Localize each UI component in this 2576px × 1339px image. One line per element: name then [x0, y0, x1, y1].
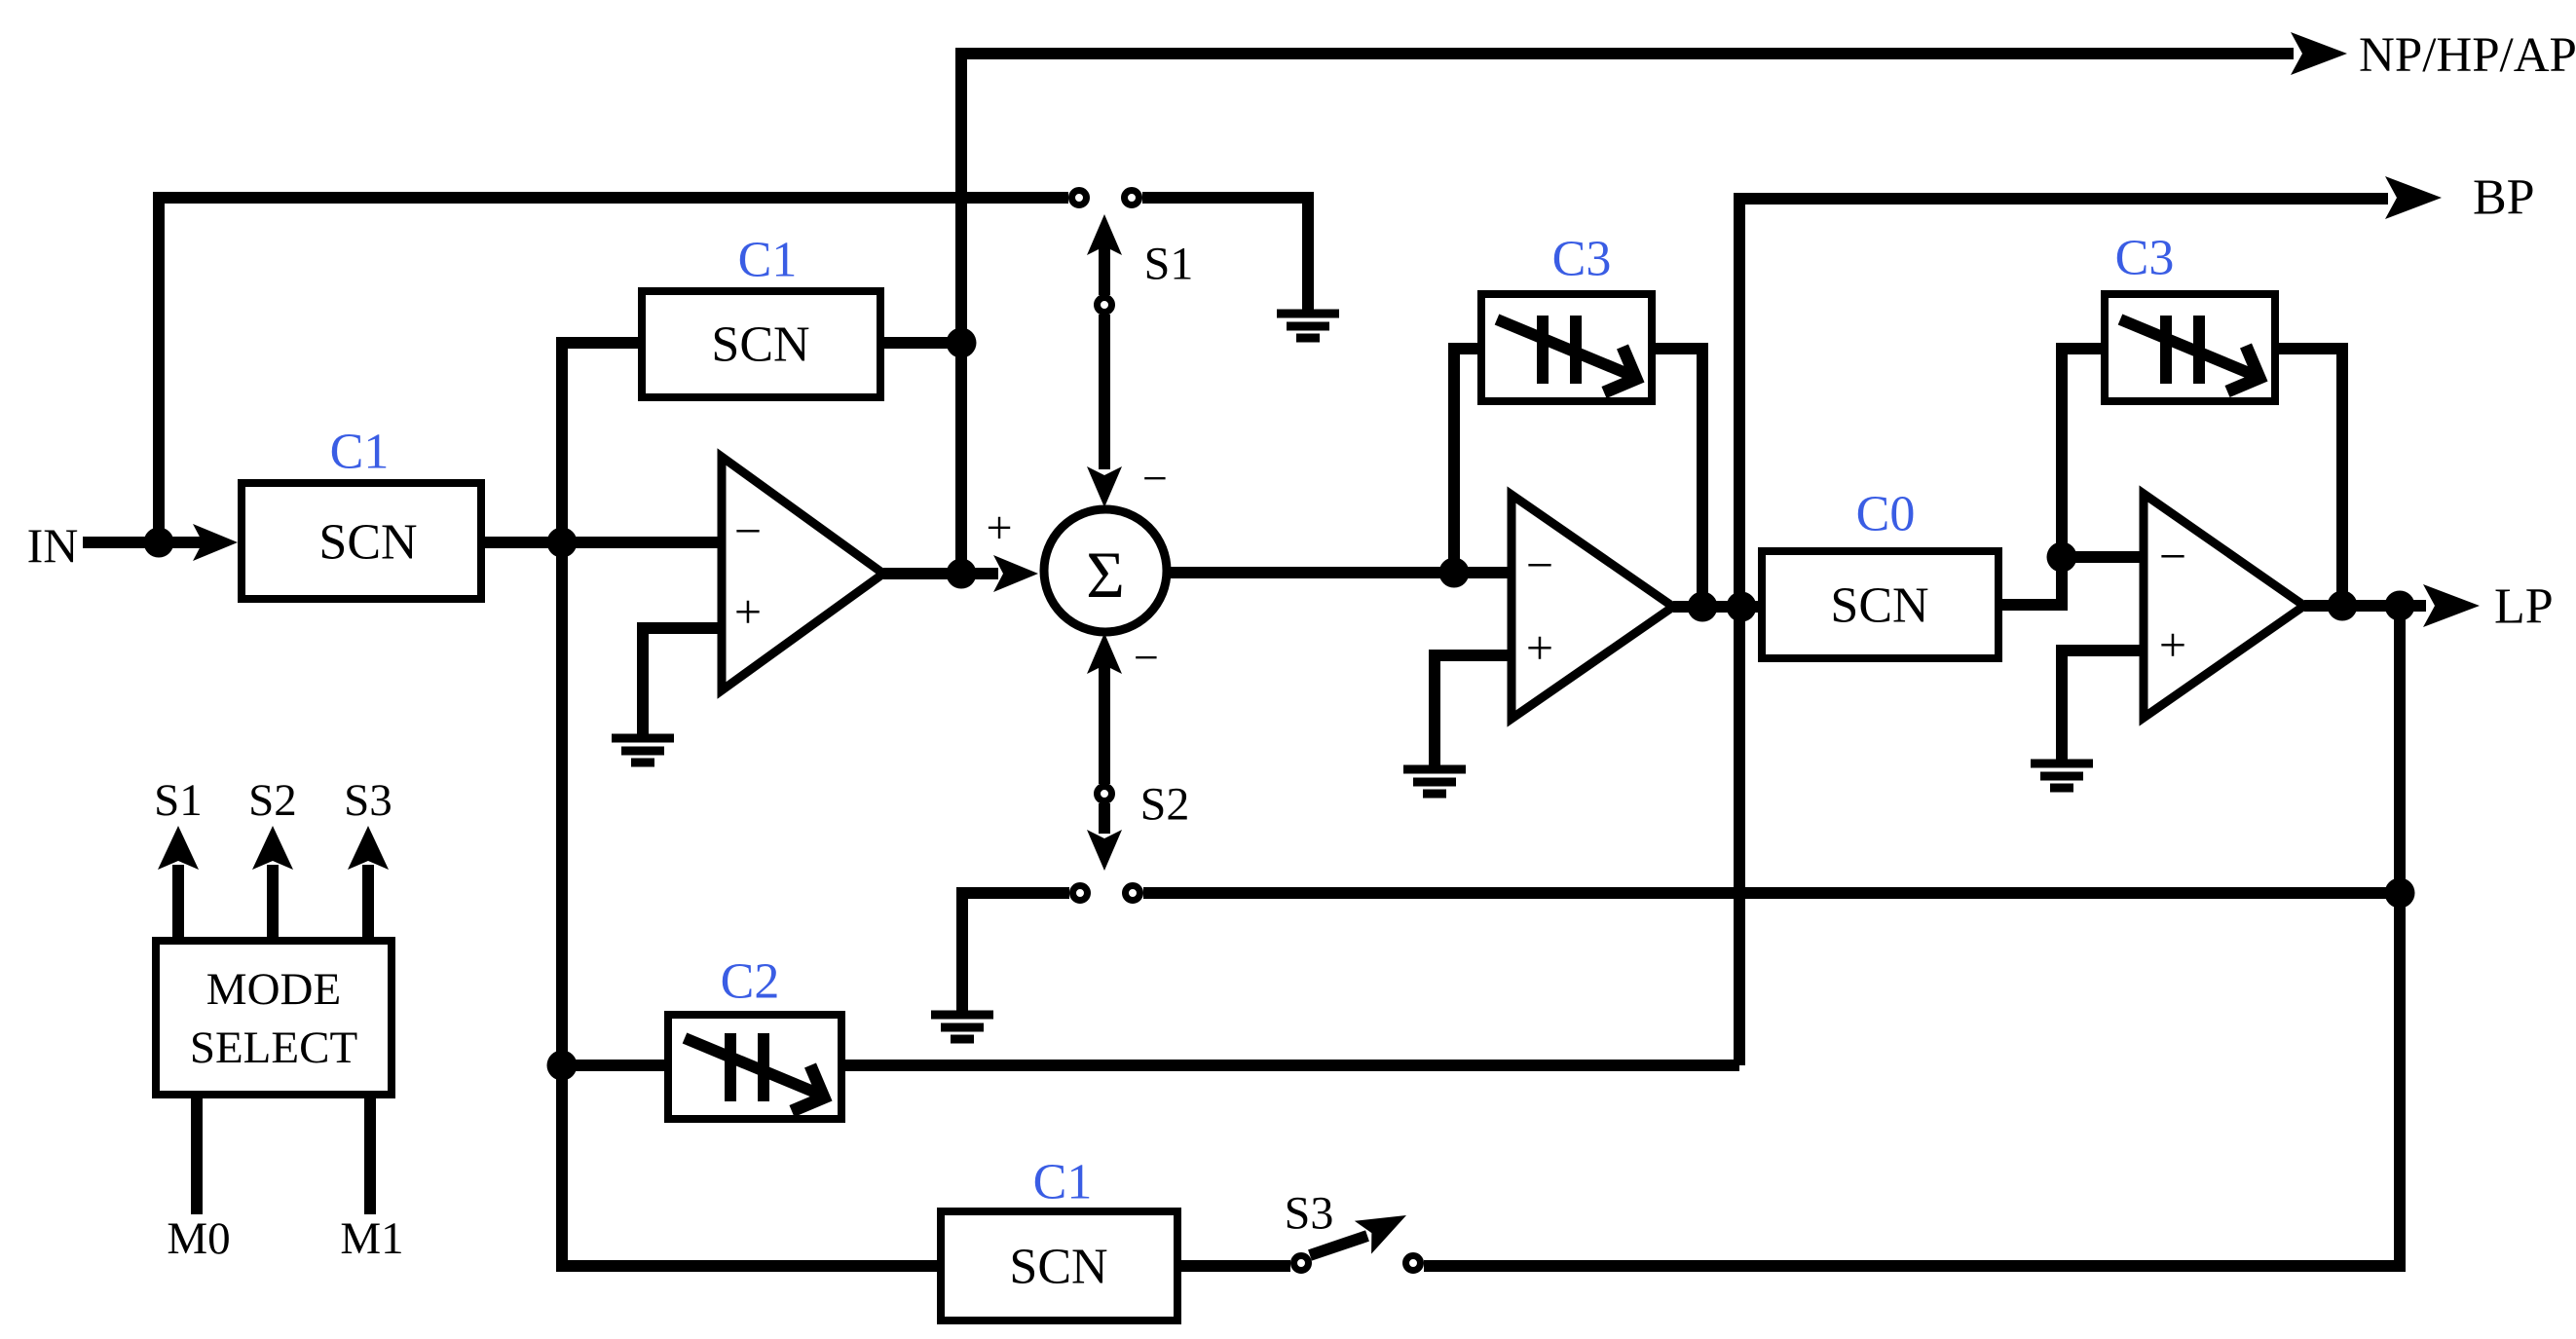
svg-text:IN: IN — [27, 518, 79, 573]
wire NP/HP/AP riser and top line — [961, 54, 2294, 574]
capacitor C3 box (second) — [2105, 294, 2275, 401]
wire U2 + input to ground — [1435, 655, 1512, 765]
wire IN riser to S1 row — [159, 198, 1068, 542]
svg-text:MODE: MODE — [206, 964, 341, 1015]
switch S3 arm — [1310, 1236, 1367, 1255]
block SCN C1 feedback top — [642, 291, 880, 397]
svg-text:+: + — [734, 584, 762, 639]
wire BP riser (C2 return up to BP line) — [1739, 199, 2388, 1065]
block SCN C1 bottom — [941, 1211, 1177, 1320]
svg-text:C2: C2 — [721, 954, 780, 1010]
svg-text:SCN: SCN — [318, 515, 417, 571]
arrowhead mode S2 — [252, 826, 293, 870]
svg-text:+: + — [986, 502, 1012, 554]
svg-text:M1: M1 — [340, 1213, 403, 1264]
wire M0 input — [191, 1098, 203, 1214]
arrowhead mode S1 — [158, 826, 199, 870]
wire S2 left contact to ground — [962, 893, 1069, 1011]
svg-text:Σ: Σ — [1086, 538, 1125, 612]
switch S2 right contact — [1126, 886, 1140, 901]
svg-text:−: − — [2159, 529, 2186, 583]
switch S2 left contact — [1073, 886, 1088, 901]
svg-text:M0: M0 — [167, 1213, 230, 1264]
block SCN C1 input — [242, 483, 481, 599]
svg-text:SCN: SCN — [1009, 1240, 1107, 1295]
wire S2 arrow upper stem — [1099, 664, 1110, 784]
arrowhead S2 (down) — [1087, 830, 1122, 871]
junction dot U2 out / BP riser — [1727, 592, 1757, 622]
switch S3 right contact — [1406, 1256, 1421, 1271]
svg-text:S1: S1 — [1144, 239, 1194, 290]
ground (U2 +) — [1403, 769, 1466, 794]
capacitor C3 symbol (second) — [2166, 316, 2199, 384]
junction dot U2 out / C3 right — [1688, 592, 1718, 622]
op-amp U1 — [722, 457, 883, 690]
wire C3 first left feedback — [1454, 349, 1481, 573]
junction dot U3 minus node — [2047, 542, 2077, 573]
svg-text:+: + — [1526, 620, 1553, 675]
switch S1 control arrow (up head) — [1087, 214, 1122, 255]
wire mode S3 stem — [362, 865, 374, 937]
svg-text:C3: C3 — [2115, 231, 2175, 286]
wire SCN top output to NP riser — [880, 337, 961, 349]
arrowhead LP output — [2423, 584, 2480, 627]
capacitor C2 symbol — [730, 1033, 764, 1101]
arrowhead S1 into summer (down) — [1087, 466, 1122, 507]
arrowhead S3 arm — [1355, 1199, 1415, 1254]
arrowhead mode S3 — [348, 826, 389, 870]
summer sigma circle — [1044, 509, 1167, 632]
svg-text:−: − — [1526, 538, 1553, 592]
contact circle S2 arm pivot — [1098, 787, 1112, 801]
svg-text:−: − — [734, 503, 762, 558]
wire bus to C2 left — [562, 1060, 668, 1071]
svg-text:S2: S2 — [248, 775, 297, 826]
wire S1 arrow lower stem — [1099, 315, 1110, 469]
arrowhead BP output — [2385, 176, 2442, 219]
arrowhead into summer (+ input) — [993, 555, 1038, 592]
switch S3 left contact — [1294, 1256, 1309, 1271]
svg-text:SCN: SCN — [711, 317, 809, 373]
junction dot LP node — [2385, 591, 2415, 621]
svg-text:+: + — [2159, 617, 2186, 672]
svg-text:S1: S1 — [154, 775, 203, 826]
wire S1 arrow upper stem — [1099, 245, 1110, 295]
block SCN C0 — [1762, 551, 1998, 658]
junction dot U1 output — [947, 559, 977, 589]
svg-text:S3: S3 — [344, 775, 392, 826]
svg-text:C3: C3 — [1552, 232, 1612, 287]
svg-text:SCN: SCN — [1830, 578, 1928, 634]
wire S2 arrow lower stem — [1099, 803, 1110, 834]
svg-text:LP: LP — [2494, 579, 2554, 635]
ground (S1 branch) — [1277, 314, 1339, 338]
capacitor C3 box (first) — [1481, 294, 1652, 401]
wire C3 first right feedback — [1652, 349, 1702, 607]
block MODE SELECT — [156, 941, 392, 1095]
wire mode S2 stem — [267, 865, 279, 937]
junction dot IN node — [144, 528, 174, 558]
svg-text:C1: C1 — [1033, 1155, 1093, 1210]
wire summing bus (vertical x577 with stubs) — [562, 343, 937, 1266]
junction dot SCN top out — [947, 328, 977, 358]
op-amp U2 — [1512, 495, 1673, 719]
wire U1 + input to ground — [643, 628, 722, 734]
wire S1 right contact to ground — [1142, 198, 1308, 310]
wire M1 input — [364, 1098, 376, 1214]
svg-text:C0: C0 — [1856, 487, 1916, 542]
wire U3 output to LP — [2304, 600, 2426, 612]
op-amp U3 — [2144, 494, 2304, 718]
ground (U3 +) — [2031, 763, 2093, 788]
capacitor C2 box — [668, 1015, 841, 1119]
wire C2 output to BP riser — [841, 1060, 1739, 1071]
svg-text:SELECT: SELECT — [190, 1023, 357, 1073]
switch S1 left contact — [1072, 191, 1087, 205]
svg-text:BP: BP — [2473, 170, 2535, 226]
arrowhead S2 into summer (up) — [1087, 633, 1122, 674]
junction dot U3 out / C3 right — [2328, 591, 2358, 621]
junction dot summing bus / SCN1 out — [547, 528, 578, 558]
wire mode S1 stem — [172, 865, 184, 937]
junction dot LP riser / S2 row — [2385, 878, 2415, 909]
svg-text:C1: C1 — [330, 425, 390, 480]
wire SCN1 output to op-amp U1 — [485, 537, 722, 548]
wire U2 output to SCN C0 — [1673, 601, 1762, 613]
wire summer output to op-amp U2 — [1170, 567, 1512, 578]
wire C3 second right feedback — [2275, 349, 2342, 606]
svg-text:S2: S2 — [1140, 779, 1190, 831]
wire IN lead — [83, 537, 206, 548]
ground (S2 branch) — [931, 1015, 993, 1039]
svg-text:−: − — [1142, 454, 1168, 503]
switch S1 right contact — [1125, 191, 1139, 205]
wire C0 output jog to U3 minus — [1998, 349, 2144, 605]
svg-text:S3: S3 — [1285, 1188, 1334, 1240]
contact circle S1 arm pivot — [1098, 298, 1112, 313]
wire U3 + input to ground — [2062, 651, 2144, 760]
wire U1 output to summer — [883, 568, 998, 579]
arrowhead NP/HP/AP output — [2291, 32, 2347, 75]
junction dot C3 feedback / U2 minus input — [1439, 558, 1470, 588]
wire S2 row right (to LP riser) — [1143, 887, 2400, 899]
svg-text:C1: C1 — [738, 233, 798, 288]
svg-text:NP/HP/AP: NP/HP/AP — [2359, 28, 2576, 83]
wire LP feedback riser down and along bottom to S3 — [1424, 606, 2400, 1266]
junction dot summing bus / C2 — [547, 1051, 578, 1081]
wire SCN bottom output to S3 — [1177, 1260, 1290, 1272]
arrowhead into SCN C1 input — [193, 524, 238, 561]
ground (U1 +) — [612, 738, 674, 762]
capacitor C3 symbol (first) — [1543, 316, 1576, 384]
svg-text:−: − — [1134, 633, 1159, 683]
